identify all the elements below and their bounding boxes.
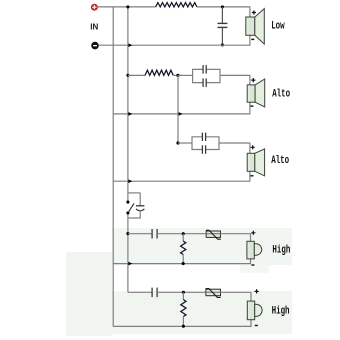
parallel capacitors C3a C3b frame — [192, 133, 219, 154]
wire C3 box to Alto2 speaker — [219, 142, 250, 144]
wire varistor to High2 speaker — [221, 291, 252, 293]
speaker LS3 minus mark — [251, 175, 254, 176]
wire C7 to varistor RV2 — [157, 291, 206, 293]
speaker LS5 minus mark — [255, 325, 258, 326]
wire Alto1 speaker - down — [249, 102, 251, 114]
node bus top — [126, 5, 129, 8]
node switch bottom — [126, 211, 129, 214]
node C1 top — [221, 5, 224, 8]
wire Low speaker - — [249, 35, 251, 45]
speaker LS3 plus mark — [251, 145, 255, 149]
node switch top — [126, 201, 129, 204]
bus right vertical wire (lower) — [127, 213, 129, 292]
speaker LS1 minus mark — [251, 39, 254, 40]
arrow on Alto1 return at tap — [179, 112, 183, 116]
wire to High2 speaker + — [250, 292, 252, 301]
wire to High1 speaker + — [250, 234, 252, 242]
pale green wash bottom area — [66, 252, 112, 336]
svg-text:Alto: Alto — [271, 154, 289, 167]
capacitor C1 — [218, 7, 228, 45]
wire to Low speaker + — [249, 7, 251, 17]
wire Alto1 feed — [128, 74, 145, 76]
capacitor C4 curved plate — [136, 209, 144, 211]
wire to Alto2 speaker + — [249, 143, 251, 153]
capacitor C4 bottom lead — [128, 210, 140, 218]
speaker LS2 minus mark — [250, 105, 253, 106]
wire High1 speaker - down — [250, 259, 252, 264]
node High1 feed — [126, 232, 129, 235]
varistor RV2 — [206, 289, 221, 298]
svg-text:IN: IN — [90, 22, 98, 31]
varistor RV1 — [206, 230, 221, 239]
arrow on - feed — [128, 43, 132, 47]
bus left vertical wire — [112, 7, 114, 327]
speaker LS2 (Alto) — [247, 79, 265, 107]
svg-text:Alto: Alto — [272, 87, 290, 100]
wire High2 return bottom — [113, 325, 251, 327]
wire C2 box to Alto1 speaker — [220, 74, 250, 76]
inductor L2 — [145, 70, 173, 75]
arrow on Alto2 return — [128, 179, 132, 183]
wire High1 return — [113, 263, 251, 265]
node R1 top — [182, 232, 185, 235]
speaker LS1 plus mark — [252, 10, 256, 14]
speaker LS1 (Low) — [246, 9, 264, 45]
speaker LS4 plus mark — [251, 231, 255, 235]
wire Alto1 return — [113, 113, 250, 115]
wire node to C2 box — [178, 74, 193, 76]
wire varistor to High1 speaker — [221, 233, 252, 235]
node Alto1 feed — [126, 74, 129, 77]
bus right vertical wire (upper) — [127, 7, 129, 202]
resistor R2 — [181, 292, 186, 326]
capacitor C2a plates — [202, 65, 204, 74]
switch SW1 bypass branch top wire — [128, 192, 140, 194]
speaker LS3 (Alto) — [247, 149, 264, 176]
node R2 bottom — [182, 325, 185, 328]
resistor R1 — [181, 234, 186, 264]
capacitor C7 plates — [151, 288, 153, 298]
wire High1 feed — [128, 233, 152, 235]
wire L2 to node — [173, 74, 182, 76]
capacitor C4 bypass leads — [139, 193, 141, 205]
node after L2 — [176, 74, 179, 77]
terminal + (red) — [91, 4, 98, 11]
wire to Alto1 speaker + — [249, 75, 251, 85]
wire top + feed (row Low) — [98, 6, 156, 8]
tweeter LS5 (High) — [247, 301, 262, 320]
capacitor C4 straight plate — [136, 205, 144, 207]
wire - feed (row Low bottom) — [99, 44, 251, 46]
wire L1 to speaker — [197, 6, 250, 8]
svg-text:High: High — [272, 304, 290, 317]
speaker LS5 plus mark — [255, 289, 259, 293]
svg-text:Low: Low — [271, 19, 285, 32]
wire Alto2 speaker - down — [249, 171, 251, 181]
terminal - (black) — [91, 42, 99, 50]
wire High2 speaker - down — [250, 320, 252, 327]
capacitor C6 plates — [151, 229, 153, 239]
node C1 bottom — [221, 43, 224, 46]
capacitor C2b plates — [202, 78, 204, 87]
arrow on High1 return — [128, 262, 132, 266]
node Alto2 feed — [176, 141, 179, 144]
node R1 bottom — [182, 262, 185, 265]
speaker LS2 plus mark — [251, 78, 255, 82]
wire node to C3 box — [178, 142, 192, 144]
node R2 top — [182, 291, 185, 294]
speaker LS4 minus mark — [251, 264, 254, 265]
capacitor C3b plates — [201, 145, 203, 154]
wire tap down from L2 node — [177, 75, 179, 143]
capacitor C3a plates — [201, 133, 203, 141]
wire High2 feed corner — [128, 291, 152, 293]
arrow on Alto1 return at bus — [128, 112, 132, 116]
wire C6 to varistor — [157, 233, 206, 235]
svg-text:High: High — [272, 243, 290, 256]
inductor L1 — [156, 3, 197, 7]
parallel capacitors C2a C2b frame — [193, 65, 220, 87]
wire Alto2 return — [113, 180, 250, 182]
tweeter LS4 (High) — [247, 241, 262, 259]
switch SW1 blade — [128, 203, 134, 212]
